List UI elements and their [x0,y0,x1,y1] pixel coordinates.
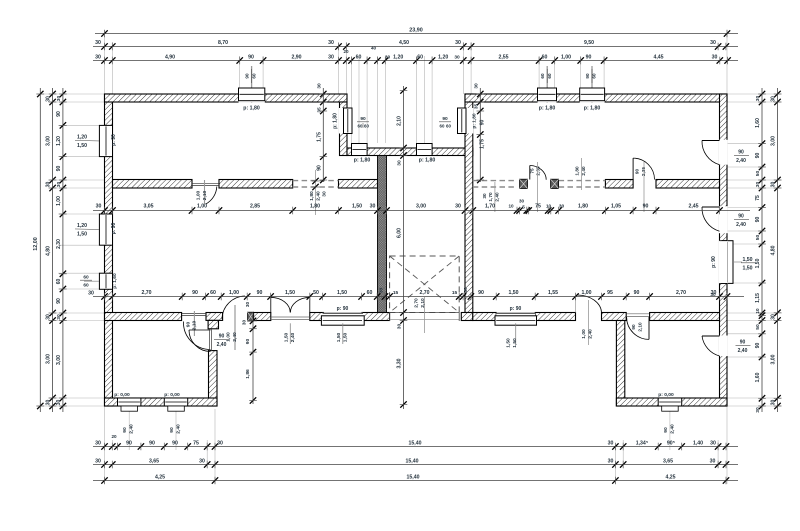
dimension row D1 bottom [93,434,738,450]
wall 2 between doors [310,313,324,321]
wall storage room east [209,351,218,406]
svg-text:90: 90 [635,169,640,175]
dimension column right A [755,88,766,413]
svg-text:3,00: 3,00 [771,136,777,146]
svg-text:60: 60 [83,275,89,281]
svg-text:1,00: 1,00 [581,329,587,339]
svg-text:2,40: 2,40 [495,192,500,202]
door D8 WC door 75 [530,162,547,212]
svg-text:2,40: 2,40 [290,332,296,342]
window W13 labels [506,306,522,348]
svg-text:5: 5 [522,205,525,210]
svg-text:60: 60 [252,73,257,79]
svg-text:90: 90 [442,116,448,122]
svg-text:30: 30 [56,400,62,406]
svg-text:30: 30 [473,83,479,89]
svg-text:6,00: 6,00 [397,228,403,238]
svg-text:1,80: 1,80 [578,204,588,210]
opening right wall for D6 [719,140,728,165]
porch step lines [390,313,460,322]
window W13 wall C 1.50 p90 [495,313,537,326]
porch dashed outline [390,256,460,313]
door D7 right wall mid 90/2.40 [702,207,749,231]
door D12 right wall lower 90/2.40 [702,336,751,356]
svg-text:1,20: 1,20 [77,135,87,141]
svg-text:90: 90 [56,298,62,304]
svg-text:30: 30 [379,288,385,294]
svg-text:35: 35 [473,104,479,110]
svg-text:60: 60 [417,55,423,61]
svg-text:3,05: 3,05 [143,204,153,210]
svg-text:95: 95 [607,290,613,296]
svg-text:2,10: 2,10 [420,298,426,308]
svg-text:p: 1,80: p: 1,80 [584,106,601,112]
dimension row D3 bottom [93,474,738,484]
wall 2 east piece to porch [362,313,390,321]
svg-text:30: 30 [710,40,716,46]
door D11 bottom-right room 90 [627,314,650,340]
svg-text:2,70: 2,70 [141,290,151,296]
svg-text:90: 90 [219,334,225,340]
window W6 label [354,158,371,164]
svg-text:1,00: 1,00 [561,55,571,61]
svg-text:2,40: 2,40 [736,222,746,228]
svg-text:2,40: 2,40 [217,342,227,348]
svg-text:3,00: 3,00 [46,136,52,146]
svg-text:2,10: 2,10 [192,320,198,330]
svg-text:90: 90 [248,55,254,61]
svg-text:60: 60 [356,55,362,61]
svg-text:30: 30 [46,314,52,320]
svg-text:1,50: 1,50 [742,257,752,263]
svg-text:30: 30 [245,302,250,308]
window W1 left wall 1.20/1.50 [99,125,112,156]
wall B dashed opening 1.70 [473,181,517,187]
svg-text:1,50: 1,50 [77,143,87,149]
svg-text:p: 90: p: 90 [111,134,117,146]
svg-text:90: 90 [56,111,62,117]
svg-text:3,00: 3,00 [56,355,62,365]
dimension column left L2 [46,88,57,412]
svg-text:p: 90: p: 90 [510,306,522,312]
window W12 labels [336,306,349,344]
svg-text:90: 90 [257,290,263,296]
svg-text:90: 90 [585,73,590,79]
wall A dashed opening 1.80 [293,181,339,187]
svg-text:30: 30 [95,40,101,46]
svg-text:60: 60 [592,73,597,79]
svg-text:1,20: 1,20 [56,136,62,146]
door D1 wall A 1.00 [192,180,219,204]
svg-text:90: 90 [172,441,178,447]
svg-text:30: 30 [56,182,62,188]
svg-text:30: 30 [88,291,94,297]
svg-text:30: 30 [242,320,247,326]
wall mid top (terrace north) [347,148,473,156]
svg-text:1,20: 1,20 [438,55,448,61]
window W8 right unit west wall [458,108,474,134]
svg-text:23,90: 23,90 [409,28,423,34]
svg-text:2,40: 2,40 [588,329,594,339]
svg-text:90: 90 [245,339,251,345]
wall right outer [720,94,728,406]
svg-text:50: 50 [755,171,761,177]
svg-text:90: 90 [56,166,62,172]
pier WC left [520,179,528,188]
window W9 label [539,106,556,112]
svg-text:1,40: 1,40 [693,441,703,447]
wall bottom-left room south [105,398,218,406]
opening center line wall B 1.80 [575,158,587,190]
dimension row 2 top [93,40,738,50]
svg-text:30: 30 [608,441,614,447]
window W1 labels [75,134,117,149]
svg-text:2,40: 2,40 [129,424,135,434]
svg-text:3,65: 3,65 [149,459,159,465]
svg-text:90: 90 [755,343,761,349]
wall step left unit [340,102,348,156]
svg-text:p: 90: p: 90 [337,306,349,312]
svg-text:1,50: 1,50 [337,290,347,296]
svg-text:30: 30 [710,441,716,447]
svg-text:p: 0,00: p: 0,00 [658,392,674,398]
svg-text:30: 30 [519,199,525,204]
svg-text:p: 1,80: p: 1,80 [333,113,339,129]
dimension row B interior y209 [93,199,750,215]
svg-text:2,10: 2,10 [397,116,403,126]
svg-text:60: 60 [446,124,451,129]
svg-text:1,86: 1,86 [245,369,251,379]
svg-text:30: 30 [482,193,487,199]
window W15 labels [164,392,181,434]
window W9 top wall right unit [538,88,557,103]
dimension row total 23.90 [95,28,738,38]
opening center line wall A 1.80 [309,170,328,215]
svg-text:30: 30 [755,407,761,413]
svg-text:30: 30 [370,204,376,210]
extension lines left [36,94,105,406]
svg-text:30: 30 [771,314,777,320]
svg-text:1,05: 1,05 [611,204,621,210]
svg-text:30: 30 [328,55,334,61]
svg-text:1,20: 1,20 [77,223,87,229]
svg-text:1,50: 1,50 [755,258,761,268]
svg-text:30: 30 [755,96,761,102]
svg-text:30: 30 [559,204,565,210]
svg-text:2,10: 2,10 [202,190,208,200]
svg-text:30: 30 [56,314,62,320]
dimension column hall x253 [245,313,257,404]
svg-text:2,40: 2,40 [581,166,586,176]
window W4 label [243,106,260,112]
svg-text:2,70: 2,70 [676,290,686,296]
svg-text:30: 30 [455,40,461,46]
dimension column inner left x323 [317,83,328,183]
svg-text:60: 60 [547,73,552,79]
window W3 left wall small 60 [99,273,112,289]
svg-text:1,80: 1,80 [309,191,315,201]
window W14 labels [114,392,134,437]
svg-text:75: 75 [755,195,761,201]
window W10 top wall right unit [580,88,605,103]
window W11 labels [711,256,755,272]
extension lines top [105,30,728,143]
window W10 label [584,106,601,112]
svg-text:2,40: 2,40 [736,158,746,164]
svg-text:2,85: 2,85 [250,204,260,210]
svg-text:12,00: 12,00 [33,237,39,251]
svg-text:3,00: 3,00 [46,354,52,364]
svg-text:60: 60 [367,290,373,296]
svg-text:30: 30 [217,441,223,447]
svg-text:90: 90 [126,441,132,447]
window W6 terrace wall [352,144,368,156]
window W3 labels [80,273,118,289]
svg-text:60: 60 [83,283,89,289]
svg-text:1,50: 1,50 [742,266,752,272]
window W9 size labels [540,69,552,83]
svg-text:30: 30 [771,182,777,188]
svg-text:2,35: 2,35 [536,166,541,176]
svg-text:1,60: 1,60 [755,118,761,128]
svg-text:2,90: 2,90 [291,55,301,61]
svg-text:90: 90 [738,214,744,220]
svg-text:50: 50 [755,235,761,241]
wall A hall/living partition [113,180,378,189]
svg-text:30: 30 [455,204,461,210]
wall top left unit [105,94,348,102]
porch opening labels [414,297,427,333]
svg-text:60: 60 [210,290,216,296]
svg-text:90: 90 [317,165,323,171]
svg-text:2,40: 2,40 [738,348,748,354]
opening right wall for W11 [719,241,728,284]
svg-text:1,80: 1,80 [310,204,320,210]
svg-text:30: 30 [755,182,761,188]
svg-text:50: 50 [755,324,761,330]
svg-text:30: 30 [56,96,62,102]
extension lines bottom [105,406,728,484]
svg-text:60: 60 [358,124,363,129]
window W2 left wall 1.20/1.50 [99,214,112,245]
svg-text:1,50: 1,50 [285,290,295,296]
wall C stub west [461,313,473,321]
window W11 right wall 1.50 [722,241,733,284]
svg-text:30: 30 [771,400,777,406]
svg-text:p: 90: p: 90 [711,256,717,268]
dimension row 3 top [93,46,738,65]
pier 30 label [242,302,251,326]
window W16 bottom-right room window [658,398,682,411]
svg-text:3,30: 3,30 [397,358,403,368]
svg-text:1,75: 1,75 [317,132,323,142]
svg-text:1,50: 1,50 [512,338,518,348]
svg-text:40: 40 [371,46,377,51]
dimension column inner right x480 [473,83,485,183]
svg-text:90: 90 [245,73,250,79]
svg-text:30: 30 [454,55,460,61]
svg-text:2,40: 2,40 [316,191,322,201]
pier 30 at hall [248,312,254,321]
svg-text:30: 30 [199,459,205,465]
svg-text:90: 90 [755,217,761,223]
dimension row C interior y296 [88,287,744,300]
svg-text:90: 90 [738,150,744,156]
window W5 labels [333,113,370,129]
dimension column left L3 [56,88,67,412]
svg-text:2,45: 2,45 [688,204,698,210]
svg-text:1,15: 1,15 [755,293,761,303]
svg-text:1,60: 1,60 [755,372,761,382]
svg-text:1,00: 1,00 [56,196,62,206]
dimension row D2 bottom [93,459,738,469]
svg-text:p: 0,00: p: 0,00 [114,392,130,398]
svg-text:90: 90 [122,427,128,433]
svg-text:30: 30 [46,400,52,406]
door D2 bottom-left room 90 [182,311,211,350]
window W7 terrace wall [417,144,433,156]
svg-text:1,34⁵: 1,34⁵ [636,441,649,447]
svg-text:8,70: 8,70 [218,40,228,46]
svg-text:75: 75 [535,204,541,210]
svg-text:90: 90 [480,120,486,126]
wall bottom-right room south [616,398,727,406]
svg-text:20: 20 [111,434,117,439]
svg-text:10: 10 [546,204,552,209]
svg-text:1,70: 1,70 [488,192,493,202]
door D5 hall opening 1.00 arc [222,296,245,350]
svg-text:20: 20 [343,49,349,54]
svg-text:30: 30 [95,55,101,61]
svg-text:90: 90 [186,322,192,328]
svg-text:30: 30 [46,96,52,102]
svg-text:30: 30 [95,441,101,447]
svg-text:30: 30 [322,191,328,197]
svg-text:30: 30 [710,292,716,298]
opening right wall for D12 [719,336,728,357]
svg-text:90: 90 [360,116,366,122]
svg-text:30: 30 [385,55,391,61]
svg-text:1,50: 1,50 [336,332,342,342]
svg-text:30: 30 [317,83,323,89]
svg-text:60: 60 [364,124,369,129]
window W2 labels [75,222,117,237]
window W12 wall2 1.50 p90 [321,313,364,326]
svg-text:4,80: 4,80 [46,246,52,256]
svg-text:1,50: 1,50 [352,204,362,210]
window W8 labels [439,113,478,129]
svg-text:1,20: 1,20 [393,55,403,61]
svg-text:4,25: 4,25 [665,474,675,480]
svg-text:1,00: 1,00 [197,204,207,210]
svg-text:p: 1,80: p: 1,80 [539,106,556,112]
svg-text:30: 30 [46,182,52,188]
svg-text:30: 30 [397,324,403,330]
svg-text:1,00: 1,00 [226,332,232,342]
svg-text:90⁵: 90⁵ [667,441,676,447]
svg-text:4,80: 4,80 [771,245,777,255]
svg-text:p: 1,80: p: 1,80 [243,106,260,112]
svg-text:2,70: 2,70 [419,290,429,296]
svg-text:1,50: 1,50 [508,290,518,296]
svg-text:1,00: 1,00 [196,190,202,200]
wall 2 south of living - west piece [105,313,182,321]
svg-text:15: 15 [393,290,399,296]
svg-text:1,70: 1,70 [485,204,495,210]
svg-text:p: 90: p: 90 [111,222,117,234]
svg-text:p: 1,60: p: 1,60 [112,273,118,289]
svg-text:p: 0,00: p: 0,00 [164,392,180,398]
label 30 right wall bottom [710,292,716,298]
svg-text:30: 30 [397,160,403,166]
svg-text:60: 60 [56,279,62,285]
svg-text:1,55: 1,55 [548,290,558,296]
svg-text:p: 1,80: p: 1,80 [419,158,436,164]
svg-text:2,35: 2,35 [641,167,646,177]
svg-text:1,00: 1,00 [229,290,239,296]
dimension column left total 12.00 [33,88,44,412]
window W4 size labels [245,69,257,83]
wall C pieces [473,313,720,321]
svg-text:30: 30 [608,459,614,465]
extension lines right [727,94,782,406]
wall B pieces right unit [605,180,719,189]
svg-text:4,90: 4,90 [165,55,175,61]
svg-text:90: 90 [586,55,592,61]
wall bottom-right room west [616,321,624,407]
svg-text:30: 30 [710,459,716,465]
svg-text:10: 10 [508,204,514,209]
svg-text:1,50: 1,50 [506,338,512,348]
svg-text:30: 30 [463,287,469,293]
wall top right unit [465,94,727,102]
svg-text:90: 90 [740,340,746,346]
svg-text:3,65: 3,65 [663,459,673,465]
svg-text:2,40: 2,40 [232,332,238,342]
door D6 right wall top 90/2.40 [702,141,749,165]
svg-text:2,10: 2,10 [638,322,643,332]
svg-text:90: 90 [634,290,640,296]
opening center line wall B 1.70 [482,182,500,212]
svg-text:p: 1,80: p: 1,80 [472,113,478,129]
dimension column right B [771,88,782,412]
window W5 step wall [339,108,352,134]
porch canopy diagonals [390,256,460,313]
wall B dashed opening 1.80 [559,181,606,187]
svg-text:p: 1,80: p: 1,80 [354,158,371,164]
svg-text:90: 90 [643,204,649,210]
svg-text:60: 60 [540,73,545,79]
svg-text:30: 30 [771,96,777,102]
svg-text:75: 75 [530,168,535,174]
wall 2 L-corner piece [206,313,223,329]
svg-text:1,75: 1,75 [480,139,486,149]
svg-text:4,45: 4,45 [653,55,663,61]
svg-text:30: 30 [96,204,102,210]
wall 2 piece east of pier [254,313,271,321]
window W4 top wall left unit [239,88,265,103]
door D4 double door living 1.50 [271,297,310,344]
svg-text:15,40: 15,40 [407,474,420,480]
svg-text:90: 90 [169,427,175,433]
svg-text:2,40: 2,40 [669,424,675,434]
svg-text:75: 75 [193,441,199,447]
door D3 storage room 90 [189,329,229,352]
svg-text:50: 50 [313,290,319,296]
dimension column center x403 [397,86,408,409]
svg-text:3,00: 3,00 [416,204,426,210]
svg-text:90: 90 [631,324,636,330]
